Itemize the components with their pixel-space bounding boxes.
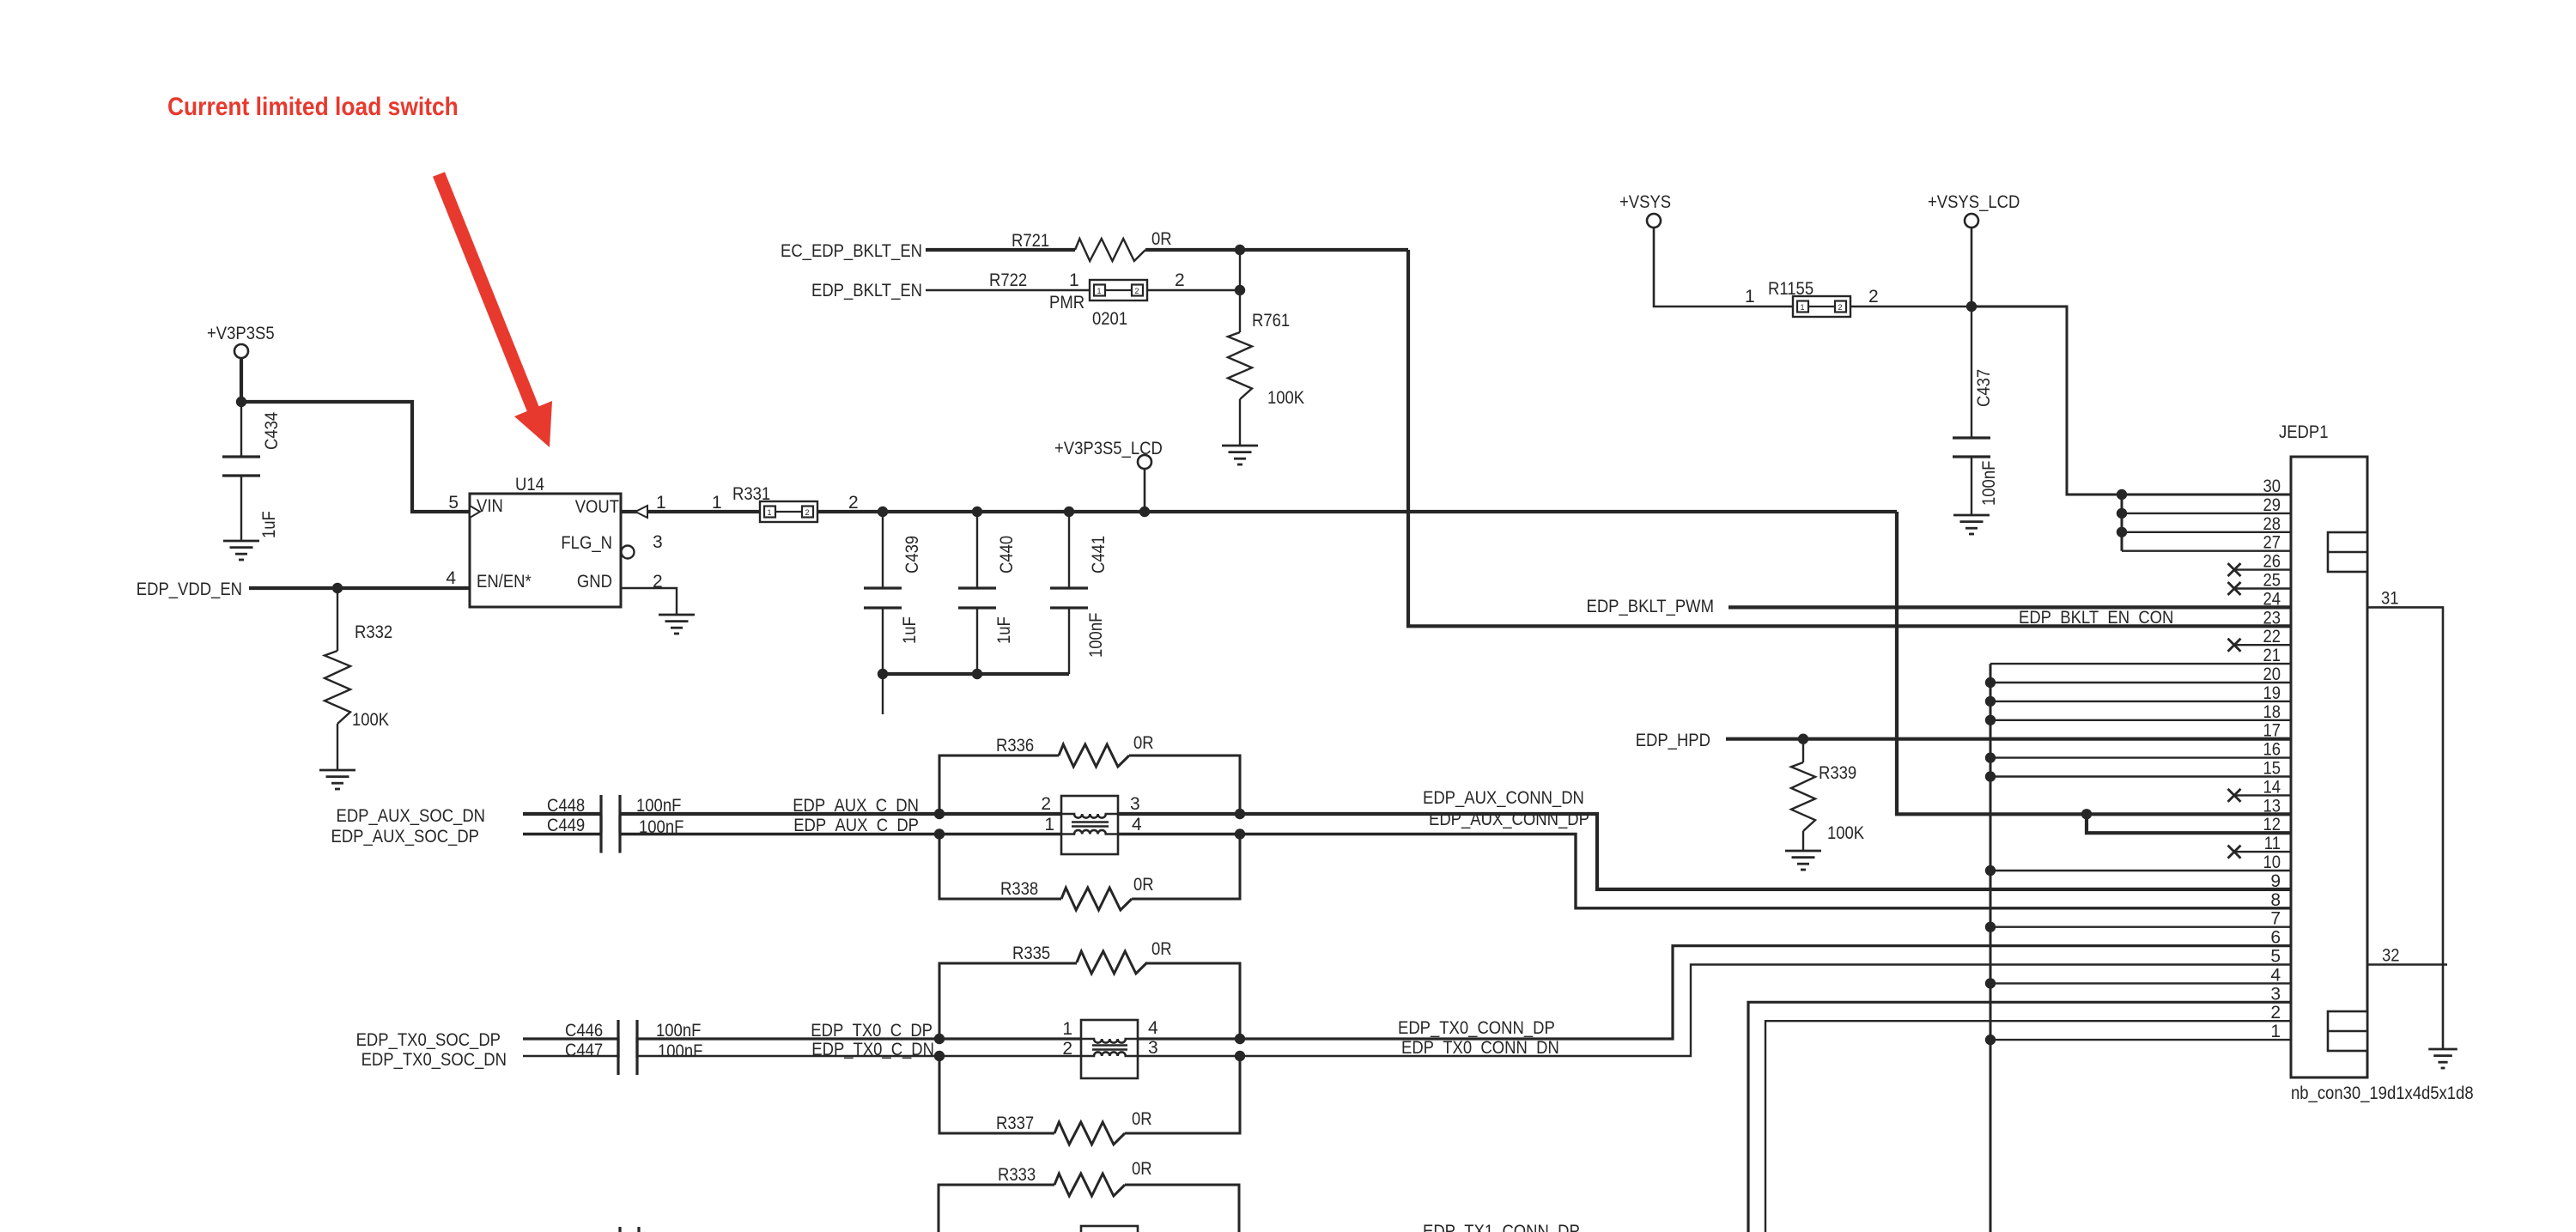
svg-text:R332: R332 bbox=[355, 622, 392, 642]
svg-text:1uF: 1uF bbox=[259, 511, 279, 538]
connector footprint label bbox=[2291, 1083, 2474, 1103]
junction +V3P3S5 node bbox=[236, 397, 246, 407]
net label EDP_TX0_CONN_DN bbox=[1401, 1038, 1559, 1058]
junction rail/+V3P3S5_LCD bbox=[1139, 507, 1150, 517]
svg-text:19: 19 bbox=[2263, 683, 2281, 703]
svg-text:R339: R339 bbox=[1819, 763, 1856, 783]
capacitor C440 bbox=[958, 512, 1017, 674]
svg-text:15: 15 bbox=[2263, 759, 2281, 779]
junction rail to pin12 branch bbox=[2081, 809, 2092, 819]
svg-text:32: 32 bbox=[2382, 946, 2400, 966]
choke AUX pin 3 bbox=[1130, 794, 1140, 814]
bus +VSYS_LCD to pins 29-27 bbox=[2122, 495, 2291, 551]
svg-text:100nF: 100nF bbox=[1086, 613, 1106, 658]
svg-text:C440: C440 bbox=[997, 536, 1017, 574]
svg-text:11: 11 bbox=[2264, 834, 2281, 853]
svg-text:1uF: 1uF bbox=[994, 616, 1014, 644]
capacitor C447 bbox=[565, 1037, 702, 1075]
resistor R761 bbox=[1228, 290, 1304, 446]
svg-text:2: 2 bbox=[1062, 1039, 1072, 1059]
junction AUX_DP left bbox=[934, 828, 945, 839]
svg-text:1: 1 bbox=[2270, 1022, 2281, 1041]
U14 pin 3 (FLG_N) circle bbox=[622, 532, 663, 559]
svg-text:C449: C449 bbox=[547, 816, 585, 835]
capacitor C439 bbox=[864, 512, 922, 674]
resistor R332 bbox=[325, 588, 392, 770]
svg-text:VOUT: VOUT bbox=[575, 497, 619, 517]
svg-text:C448: C448 bbox=[547, 796, 585, 816]
choke TX0 top winding bbox=[1081, 1039, 1138, 1043]
net EDP_TX0_SOC_DP bbox=[356, 1030, 501, 1050]
svg-text:100nF: 100nF bbox=[1979, 461, 1999, 506]
choke AUX pin 2 bbox=[1041, 794, 1051, 814]
net EDP_TX0_SOC_DN bbox=[361, 1050, 507, 1070]
capacitor C446 bbox=[565, 1020, 701, 1058]
svg-text:1: 1 bbox=[712, 493, 722, 513]
svg-text:1uF: 1uF bbox=[900, 616, 920, 644]
IC U14 body bbox=[470, 475, 621, 607]
wire AUX_C_DN bbox=[620, 812, 1061, 816]
svg-text:31: 31 bbox=[2381, 588, 2399, 608]
svg-text:9: 9 bbox=[2270, 871, 2281, 891]
svg-text:1: 1 bbox=[1044, 815, 1054, 834]
svg-text:EDP_AUX_CONN_DP: EDP_AUX_CONN_DP bbox=[1429, 810, 1589, 829]
svg-text:EDP_BKLT_EN: EDP_BKLT_EN bbox=[811, 281, 922, 300]
annotation: red title text bbox=[167, 93, 459, 121]
bypass loop R336 bbox=[939, 733, 1240, 814]
junction R721/R761 node bbox=[1235, 245, 1245, 255]
svg-text:3: 3 bbox=[653, 532, 663, 552]
svg-text:+VSYS_LCD: +VSYS_LCD bbox=[1928, 192, 2020, 212]
power +V3P3S5 bbox=[207, 324, 275, 402]
svg-text:C447: C447 bbox=[565, 1041, 603, 1060]
junction TX0_DN left bbox=[934, 1051, 945, 1061]
svg-text:20: 20 bbox=[2263, 665, 2281, 684]
ground (R339) bbox=[1785, 851, 1821, 870]
resistor R722 (PMR jumper) bbox=[989, 270, 1185, 329]
svg-text:0R: 0R bbox=[1151, 939, 1172, 959]
svg-text:1: 1 bbox=[1069, 270, 1079, 290]
net EDP_VDD_EN bbox=[137, 580, 470, 599]
svg-text:2: 2 bbox=[1175, 270, 1185, 290]
svg-text:C434: C434 bbox=[262, 412, 282, 450]
svg-text:3: 3 bbox=[1130, 794, 1140, 814]
junction rail/C441 bbox=[1064, 507, 1074, 517]
junction EDP_HPD/R339 bbox=[1798, 734, 1808, 744]
svg-text:10: 10 bbox=[2263, 853, 2281, 872]
junction TX0_DP right bbox=[1235, 1034, 1245, 1044]
junction caps tie / stub bbox=[878, 669, 982, 679]
wire R722 to node bbox=[1147, 250, 1240, 290]
bypass loop R333 (partial) bbox=[939, 1159, 1239, 1232]
choke AUX bottom winding bbox=[1061, 830, 1118, 834]
wire AUX_C_DP bbox=[620, 833, 1061, 835]
svg-text:4: 4 bbox=[1148, 1018, 1158, 1038]
svg-text:0R: 0R bbox=[1151, 229, 1172, 249]
svg-text:1: 1 bbox=[656, 493, 666, 513]
svg-text:8: 8 bbox=[2270, 890, 2281, 910]
ground (JEDP1 shield) bbox=[2428, 1049, 2458, 1068]
svg-text:100K: 100K bbox=[1827, 823, 1864, 843]
net label EDP_AUX_CONN_DN bbox=[1423, 788, 1584, 808]
net EDP_BKLT_PWM bbox=[1587, 597, 2292, 616]
svg-text:EDP_BKLT_EN_CON: EDP_BKLT_EN_CON bbox=[2019, 608, 2173, 628]
junction +VSYS_LCD node bbox=[1966, 301, 1977, 312]
ground (R332) bbox=[319, 770, 355, 789]
net EDP_AUX_SOC_DN bbox=[337, 806, 486, 826]
svg-text:26: 26 bbox=[2263, 552, 2281, 572]
choke AUX pin 1 bbox=[1044, 815, 1054, 834]
wire capacitor bottoms tie bbox=[883, 672, 1069, 676]
svg-text:25: 25 bbox=[2263, 571, 2281, 591]
wire TX0_SOC_DN bbox=[523, 1055, 618, 1057]
svg-text:EDP_AUX_SOC_DP: EDP_AUX_SOC_DP bbox=[331, 827, 480, 847]
resistor R331 (0R jumper) bbox=[712, 484, 859, 522]
JEDP1 pin 11 no-connect bbox=[2228, 846, 2292, 859]
choke TX0 pin 3 bbox=[1148, 1038, 1158, 1058]
resistor R1155 (jumper) bbox=[1745, 279, 1879, 317]
common-mode choke (TX0) body bbox=[1081, 1020, 1138, 1078]
svg-text:100nF: 100nF bbox=[658, 1041, 702, 1061]
svg-text:R1155: R1155 bbox=[1768, 279, 1814, 299]
svg-text:R338: R338 bbox=[1000, 879, 1038, 899]
choke TX0 bottom winding bbox=[1081, 1052, 1138, 1056]
svg-text:Current limited load switch: Current limited load switch bbox=[167, 93, 459, 121]
wire R1155 to +VSYS_LCD node bbox=[1850, 306, 1971, 308]
svg-text:1: 1 bbox=[1745, 287, 1755, 306]
svg-text:C446: C446 bbox=[565, 1021, 603, 1041]
svg-text:EN/EN*: EN/EN* bbox=[477, 572, 532, 592]
junction AUX_DN right bbox=[1235, 809, 1245, 819]
resistor R721 bbox=[1012, 229, 1172, 261]
svg-text:EDP_TX0_SOC_DN: EDP_TX0_SOC_DN bbox=[361, 1050, 507, 1070]
JEDP1 pin 32 bbox=[2367, 946, 2447, 966]
svg-text:FLG_N: FLG_N bbox=[561, 533, 612, 553]
svg-text:0R: 0R bbox=[1133, 733, 1154, 753]
choke TX0 pin 1 bbox=[1062, 1019, 1072, 1039]
wire TX0_C_DN bbox=[637, 1055, 1081, 1057]
capacitor C448 bbox=[547, 795, 681, 833]
svg-text:27: 27 bbox=[2263, 533, 2281, 553]
ground (R761) bbox=[1222, 446, 1258, 464]
net EC_EDP_BKLT_EN bbox=[781, 241, 1075, 261]
svg-text:3: 3 bbox=[1148, 1038, 1158, 1058]
net label EDP_BKLT_EN_CON bbox=[2019, 608, 2173, 628]
svg-text:2: 2 bbox=[1135, 287, 1139, 295]
svg-text:14: 14 bbox=[2263, 777, 2281, 797]
svg-text:0R: 0R bbox=[1132, 1159, 1152, 1179]
bypass loop R335 bbox=[939, 939, 1240, 1039]
svg-text:5: 5 bbox=[2270, 947, 2281, 967]
svg-text:2: 2 bbox=[848, 493, 859, 513]
junction R722/R761 bbox=[1235, 285, 1245, 295]
net EDP_AUX_SOC_DP bbox=[331, 827, 480, 847]
svg-text:C441: C441 bbox=[1089, 536, 1109, 574]
svg-text:0R: 0R bbox=[1133, 875, 1154, 895]
wire TX0_SOC_DP bbox=[523, 1037, 618, 1040]
ground bus (pins 21,20,19,18,16,15,10,7,4,1) bbox=[1990, 664, 2291, 1232]
power +VSYS bbox=[1619, 192, 1793, 306]
capacitor C449 bbox=[547, 816, 683, 853]
net label EDP_AUX_C_DN bbox=[793, 796, 919, 816]
svg-text:VIN: VIN bbox=[477, 496, 503, 516]
common-mode choke (AUX) body bbox=[1061, 796, 1118, 854]
svg-text:16: 16 bbox=[2263, 740, 2281, 760]
connector JEDP1 name bbox=[2279, 422, 2329, 442]
svg-text:EDP_TX0_CONN_DP: EDP_TX0_CONN_DP bbox=[1398, 1018, 1555, 1038]
svg-text:GND: GND bbox=[577, 572, 612, 592]
junction rail/C439 bbox=[878, 507, 888, 517]
junction AUX_DN left bbox=[934, 809, 945, 819]
ground (C434) bbox=[223, 541, 259, 560]
power +V3P3S5_LCD bbox=[1054, 439, 1163, 512]
svg-text:21: 21 bbox=[2263, 646, 2281, 665]
svg-text:7: 7 bbox=[2270, 909, 2281, 929]
svg-text:24: 24 bbox=[2263, 589, 2281, 609]
svg-text:1: 1 bbox=[1801, 303, 1805, 312]
svg-text:C439: C439 bbox=[902, 536, 922, 574]
connector JEDP1 body bbox=[2291, 457, 2367, 1077]
junction bus pin28 bbox=[2117, 527, 2127, 537]
svg-text:29: 29 bbox=[2263, 495, 2281, 515]
svg-text:JEDP1: JEDP1 bbox=[2279, 422, 2329, 442]
choke AUX top winding bbox=[1061, 814, 1118, 818]
wire AUX_SOC_DP bbox=[523, 833, 601, 835]
choke TX0 pin 4 bbox=[1148, 1018, 1158, 1038]
svg-text:EDP_AUX_C_DP: EDP_AUX_C_DP bbox=[793, 816, 919, 835]
junction AUX_DP right bbox=[1235, 828, 1245, 839]
svg-text:18: 18 bbox=[2263, 702, 2281, 722]
JEDP1 pin numbers 1-30 bbox=[2263, 476, 2281, 1041]
wire branch to pin 12 bbox=[2087, 814, 2291, 833]
U14 pin 4 (EN) number bbox=[446, 568, 456, 588]
svg-text:100K: 100K bbox=[352, 710, 389, 730]
svg-text:R722: R722 bbox=[989, 270, 1027, 290]
resistor R339 bbox=[1791, 739, 1864, 851]
capacitor C444 (partial) bbox=[620, 1227, 639, 1232]
svg-text:28: 28 bbox=[2263, 514, 2281, 534]
net label EDP_AUX_C_DP bbox=[793, 816, 919, 835]
svg-text:U14: U14 bbox=[515, 475, 544, 495]
ground (U14 GND) bbox=[659, 615, 695, 634]
annotation: red arrow bbox=[439, 174, 552, 447]
net EDP_HPD bbox=[1636, 731, 2291, 750]
net EDP_BKLT_EN bbox=[811, 281, 1090, 300]
junction TX0_DP left bbox=[934, 1034, 945, 1044]
common-mode choke (TX1, partial) bbox=[1081, 1226, 1138, 1232]
svg-text:EDP_VDD_EN: EDP_VDD_EN bbox=[137, 580, 242, 599]
net label EDP_TX0_CONN_DP bbox=[1398, 1018, 1555, 1038]
svg-text:R337: R337 bbox=[996, 1114, 1034, 1133]
wire TX0_C_DP bbox=[637, 1037, 1081, 1040]
svg-text:C437: C437 bbox=[1974, 369, 1994, 407]
svg-text:12: 12 bbox=[2263, 815, 2281, 834]
svg-text:R721: R721 bbox=[1012, 231, 1049, 251]
wire U14 GND to ground bbox=[621, 588, 677, 615]
svg-text:23: 23 bbox=[2263, 608, 2281, 628]
capacitor C434 bbox=[222, 402, 282, 541]
U14 pin 5 (VIN) number bbox=[448, 493, 459, 513]
U14 pin 1 output arrow bbox=[621, 506, 760, 518]
svg-text:EDP_TX0_SOC_DP: EDP_TX0_SOC_DP bbox=[356, 1030, 501, 1050]
svg-text:R331: R331 bbox=[732, 484, 770, 504]
svg-text:0R: 0R bbox=[1132, 1109, 1152, 1129]
net label EDP_TX0_C_DN bbox=[811, 1040, 934, 1059]
svg-text:EDP_TX0_CONN_DN: EDP_TX0_CONN_DN bbox=[1401, 1038, 1559, 1058]
JEDP1 pin 31 bbox=[2367, 588, 2443, 1049]
wire +V3P3S5 to U14 VIN bbox=[241, 402, 470, 512]
wire R721 to bus corner bbox=[1145, 250, 2291, 626]
svg-text:4: 4 bbox=[1132, 815, 1142, 834]
svg-text:R336: R336 bbox=[996, 736, 1034, 756]
svg-text:EDP_HPD: EDP_HPD bbox=[1636, 731, 1710, 750]
net label EDP_TX0_C_DP bbox=[811, 1021, 933, 1041]
power +VSYS_LCD bbox=[1928, 192, 2020, 306]
wire TX1_CONN_DN to pin 2 bbox=[1765, 1021, 2291, 1232]
capacitor C437 bbox=[1953, 306, 1999, 515]
JEDP1 pin 25 no-connect bbox=[2228, 582, 2292, 595]
U14 pin 5 input arrow bbox=[470, 506, 480, 518]
junction EDP_VDD_EN / R332 bbox=[332, 583, 343, 593]
junction rail/C440 bbox=[972, 507, 982, 517]
wire +V3P3S5_LCD rail bbox=[817, 512, 2291, 814]
capacitor C441 bbox=[1050, 512, 1109, 674]
svg-text:R761: R761 bbox=[1252, 311, 1290, 331]
svg-text:30: 30 bbox=[2263, 476, 2281, 496]
wire TX0_CONN_DP bbox=[1138, 946, 2291, 1039]
svg-text:nb_con30_19d1x4d5x1d8: nb_con30_19d1x4d5x1d8 bbox=[2291, 1083, 2474, 1103]
svg-text:1: 1 bbox=[768, 508, 772, 517]
svg-text:1: 1 bbox=[1062, 1019, 1072, 1039]
svg-text:EDP_BKLT_PWM: EDP_BKLT_PWM bbox=[1587, 597, 1715, 616]
svg-text:PMR: PMR bbox=[1049, 293, 1084, 313]
svg-text:2: 2 bbox=[1041, 794, 1051, 814]
bypass loop R338 bbox=[939, 834, 1240, 911]
svg-text:EC_EDP_BKLT_EN: EC_EDP_BKLT_EN bbox=[781, 241, 922, 261]
svg-text:2: 2 bbox=[1868, 287, 1879, 306]
svg-text:4: 4 bbox=[2270, 965, 2281, 985]
junction pins-30 bus top bbox=[2117, 489, 2127, 500]
ground (C437) bbox=[1953, 515, 1990, 534]
wire AUX_SOC_DN bbox=[523, 812, 601, 816]
choke TX0 core bbox=[1092, 1046, 1127, 1050]
junctions on ground bus bbox=[1985, 677, 1996, 1046]
svg-text:2: 2 bbox=[1838, 303, 1843, 312]
JEDP1 pin 22 no-connect bbox=[2228, 639, 2292, 652]
svg-text:+VSYS: +VSYS bbox=[1619, 192, 1671, 212]
svg-text:17: 17 bbox=[2263, 721, 2281, 741]
svg-text:2: 2 bbox=[2270, 1003, 2281, 1023]
svg-text:6: 6 bbox=[2270, 928, 2281, 948]
svg-text:EDP_AUX_CONN_DN: EDP_AUX_CONN_DN bbox=[1423, 788, 1584, 808]
wire stub below C439 bbox=[882, 674, 884, 714]
svg-text:+V3P3S5: +V3P3S5 bbox=[207, 324, 275, 343]
svg-text:R333: R333 bbox=[998, 1165, 1036, 1185]
svg-text:3: 3 bbox=[2270, 984, 2281, 1004]
junction TX0_DN right bbox=[1235, 1051, 1245, 1061]
wire AUX_CONN_DP bbox=[1118, 834, 2291, 908]
wire TX1_CONN_DP to pin 3 bbox=[1748, 1002, 2291, 1232]
JEDP1 pin 14 no-connect bbox=[2228, 789, 2292, 802]
net label EDP_TX1_CONN_DP (partial) bbox=[1423, 1222, 1580, 1232]
wire TX0_CONN_DN bbox=[1138, 965, 2291, 1057]
wire node to pin30 corner bbox=[1971, 306, 2291, 495]
svg-text:EDP_AUX_SOC_DN: EDP_AUX_SOC_DN bbox=[337, 806, 486, 826]
wire AUX_CONN_DN bbox=[1118, 814, 2291, 889]
choke AUX core bbox=[1072, 822, 1109, 827]
svg-text:2: 2 bbox=[805, 508, 810, 517]
net label EDP_AUX_CONN_DP bbox=[1429, 810, 1589, 829]
svg-text:0201: 0201 bbox=[1092, 309, 1127, 329]
svg-text:1: 1 bbox=[1097, 287, 1102, 295]
svg-text:4: 4 bbox=[446, 568, 456, 588]
svg-text:5: 5 bbox=[448, 493, 459, 513]
U14 pin 1 (VOUT) number bbox=[656, 493, 666, 513]
JEDP1 pin 26 no-connect bbox=[2228, 563, 2292, 576]
svg-text:13: 13 bbox=[2263, 796, 2281, 816]
junction bus pin29 bbox=[2117, 508, 2127, 519]
choke AUX pin 4 bbox=[1132, 815, 1142, 834]
bypass loop R337 bbox=[939, 1056, 1240, 1144]
svg-text:EDP_TX1_CONN_DP: EDP_TX1_CONN_DP bbox=[1423, 1222, 1580, 1232]
svg-text:22: 22 bbox=[2263, 627, 2281, 646]
svg-text:R335: R335 bbox=[1012, 944, 1050, 963]
svg-text:100K: 100K bbox=[1267, 388, 1304, 408]
choke TX0 pin 2 bbox=[1062, 1039, 1072, 1059]
U14 pin 2 (GND) number bbox=[653, 572, 663, 592]
